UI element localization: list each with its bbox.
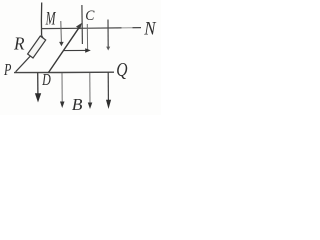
rod C-D (diagonal with arrow): [49, 23, 82, 73]
field arrow B bottom (x=90): [88, 73, 93, 109]
resistor bottom lead: [16, 56, 31, 72]
wire: faded patch of top rail: [122, 27, 133, 29]
svg-text:N: N: [143, 18, 156, 39]
field arrow B bottom (x=108, at Q): [106, 72, 111, 109]
resistor R: [16, 36, 46, 72]
svg-text:P: P: [3, 61, 11, 79]
resistor top lead: [42, 36, 43, 38]
field arrow B bottom (x=62): [60, 73, 65, 108]
field arrow B top-left (x=61): [59, 21, 64, 46]
svg-text:M: M: [45, 9, 57, 29]
svg-text:R: R: [13, 33, 25, 53]
wire: top rail M-N: [41, 28, 141, 29]
wire: bottom rail P-Q: [14, 71, 114, 73]
node C: vertical line at C: [81, 5, 84, 44]
svg-text:B: B: [72, 95, 83, 114]
field arrow top-right (x=108): [106, 20, 110, 51]
field arrow B bottom (x=38, at D): [35, 73, 41, 103]
svg-text:D: D: [41, 71, 51, 89]
svg-text:C: C: [85, 7, 94, 24]
resistor body: [28, 36, 46, 58]
velocity arrow on rod: [64, 48, 91, 53]
wire: vertical post at M: [40, 3, 42, 36]
svg-text:Q: Q: [116, 58, 127, 80]
field arrow top (x=87.5): [86, 24, 88, 50]
